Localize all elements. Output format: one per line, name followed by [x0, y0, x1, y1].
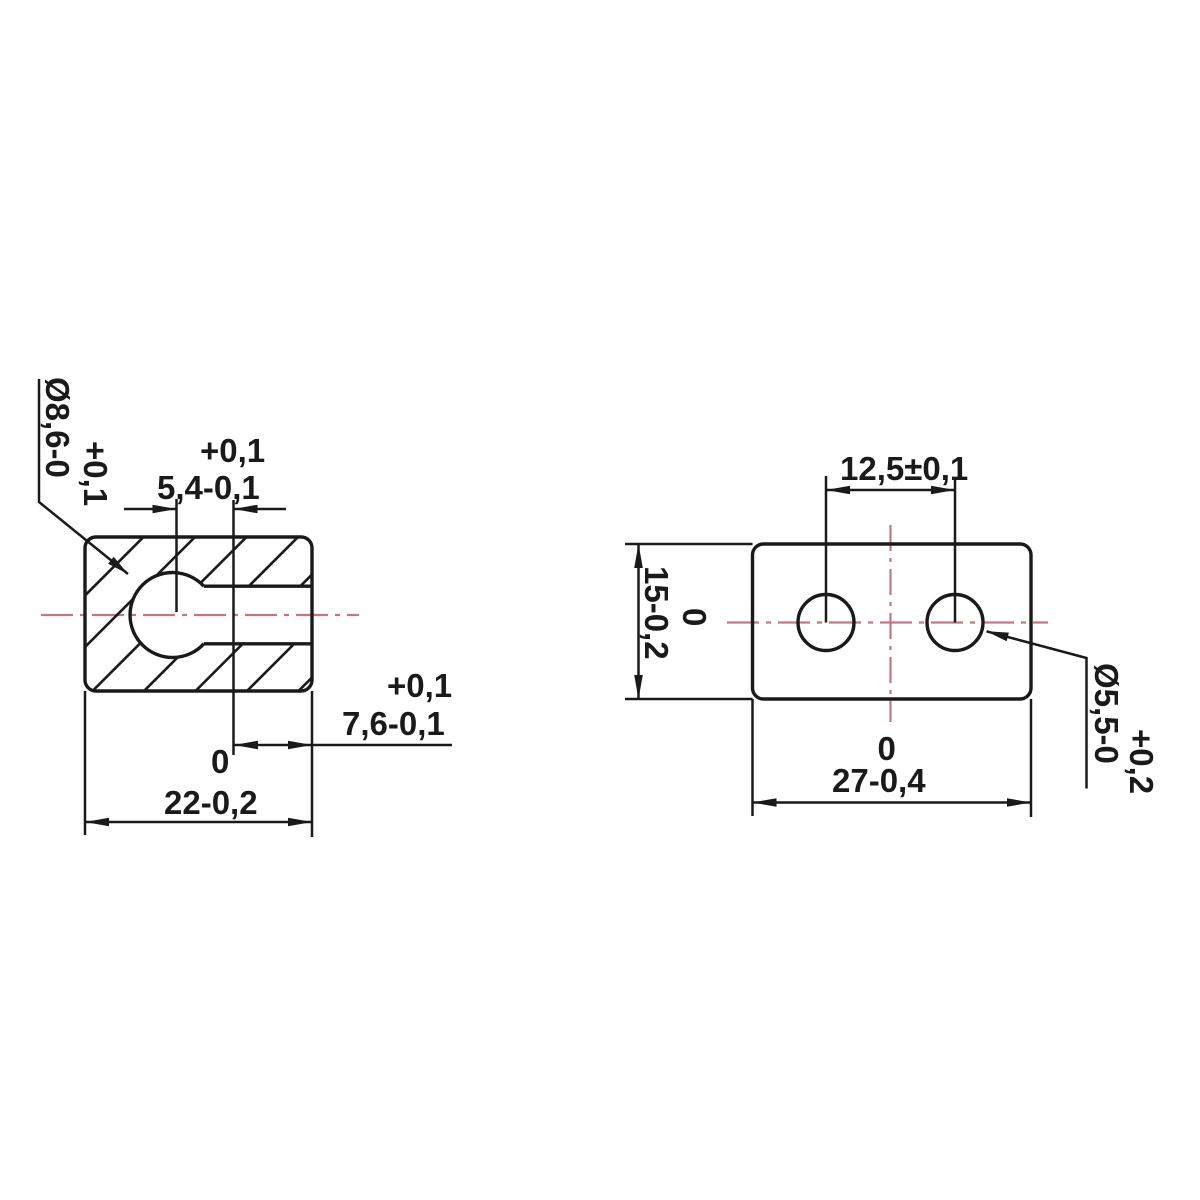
- red centerlines: [727, 525, 1048, 722]
- extension + dimension lines, left view: [39, 379, 452, 837]
- 27 ext verticals: [751, 699, 754, 816]
- leader dia 5,5: [987, 631, 1087, 788]
- dim 27: [753, 801, 1032, 804]
- svg-text:5,4-0,1: 5,4-0,1: [157, 469, 260, 506]
- part outline: [753, 544, 1032, 699]
- svg-text:15-0,2: 15-0,2: [638, 566, 675, 660]
- ext line through circle center (5,4 left): [175, 499, 178, 612]
- svg-text:12,5±0,1: 12,5±0,1: [840, 450, 968, 487]
- slot bottom edge: [204, 642, 312, 645]
- ext: part right edge down: [311, 691, 314, 837]
- extension + dimension lines right view: [625, 476, 1087, 817]
- dim 5,4: [124, 508, 177, 511]
- svg-text:Ø5,5-0: Ø5,5-0: [1088, 663, 1125, 764]
- arrowheads right view: [634, 486, 1031, 807]
- hole verticals: [825, 476, 828, 623]
- dim 22: [85, 821, 312, 824]
- svg-text:Ø8,6-0: Ø8,6-0: [39, 377, 76, 478]
- svg-text:+0,2: +0,2: [1123, 729, 1160, 794]
- svg-text:0: 0: [676, 608, 713, 626]
- svg-text:+0,1: +0,1: [77, 441, 114, 506]
- svg-text:0: 0: [211, 743, 229, 780]
- leader dia 8,6: [39, 379, 128, 574]
- ext: part left edge down: [84, 691, 87, 835]
- slot top edge: [204, 585, 312, 588]
- hatching: [0, 530, 460, 700]
- svg-text:+0,1: +0,1: [200, 432, 265, 469]
- arrowheads left view: [85, 505, 312, 827]
- texts right view: [638, 450, 1160, 799]
- dim 7,6 with tail: [234, 744, 452, 747]
- svg-text:+0,1: +0,1: [387, 667, 452, 704]
- keyhole hole: circle arc: [130, 573, 204, 658]
- dim 12,5: [826, 489, 955, 492]
- texts left view: [39, 377, 452, 821]
- ext line feature (5,4 right / 7,6 left): [232, 500, 235, 755]
- dim 15 vertical: [637, 544, 640, 699]
- svg-text:7,6-0,1: 7,6-0,1: [342, 705, 445, 742]
- centerline (red) left view: [41, 614, 359, 616]
- svg-text:27-0,4: 27-0,4: [832, 762, 926, 799]
- part outline (section): [85, 537, 312, 691]
- 15: ext horizontals: [625, 543, 753, 546]
- svg-text:22-0,2: 22-0,2: [164, 784, 258, 821]
